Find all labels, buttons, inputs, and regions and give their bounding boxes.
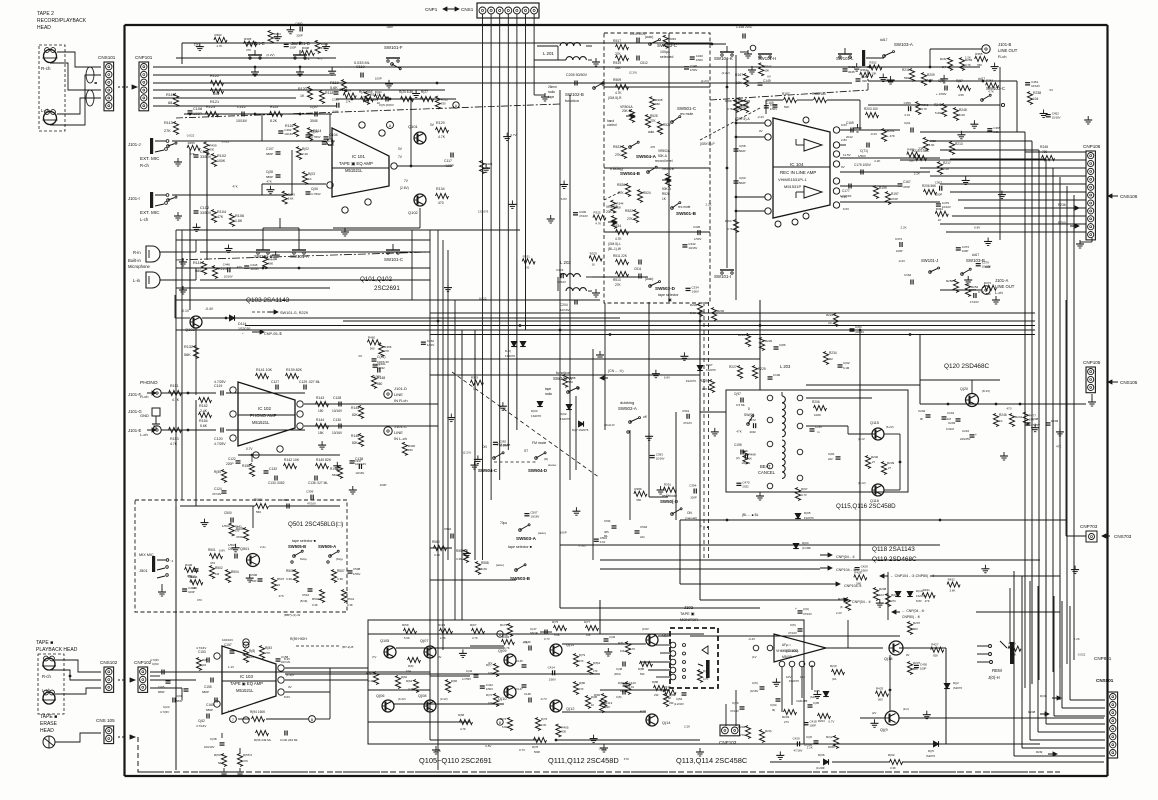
resistor R503 560 — [254, 498, 269, 514]
svg-text:R527: R527 — [663, 123, 671, 127]
svg-text:C508: C508 — [353, 567, 361, 571]
diode D114 1S2076 — [230, 315, 251, 331]
diode D115 bottom — [926, 741, 939, 758]
resistor R355 — [975, 52, 988, 67]
resistor R314 — [343, 89, 356, 104]
resistor R436 — [185, 563, 198, 578]
svg-text:SW102-B: SW102-B — [565, 92, 584, 97]
svg-text:1/50V: 1/50V — [770, 107, 777, 111]
svg-text:R225: R225 — [758, 367, 766, 371]
svg-text:←: ← — [800, 566, 804, 571]
svg-text:CNP101: CNP101 — [135, 55, 153, 60]
diode D101 1S2076 pair — [505, 342, 526, 359]
svg-text:2.2K: 2.2K — [901, 226, 907, 230]
node circled B3 — [497, 719, 503, 725]
wire x888 down — [887, 572, 889, 620]
switch SW103-C — [981, 86, 1005, 101]
svg-text:5.6K: 5.6K — [502, 725, 508, 729]
svg-text:R239: R239 — [887, 461, 895, 465]
svg-text:D((? 1S2076: D((? 1S2076 — [572, 428, 589, 432]
svg-text:R(80: R(80 — [579, 681, 586, 685]
svg-text:R(83: R(83 — [265, 646, 272, 650]
dash-dot path left — [176, 104, 560, 118]
cap C194 01 — [770, 699, 781, 712]
resistor R238 104 — [1027, 91, 1041, 105]
label value — [974, 226, 980, 230]
svg-text:R509: R509 — [1009, 642, 1017, 646]
label value — [519, 748, 525, 752]
svg-text:10/16V: 10/16V — [557, 280, 566, 284]
wire sw102a drop — [575, 396, 577, 470]
svg-text:27K: 27K — [246, 48, 251, 52]
svg-text:R308: R308 — [302, 46, 310, 50]
svg-text:C500: C500 — [224, 511, 232, 515]
resistor R240 27 — [865, 455, 878, 469]
wires IC104 outputs right — [840, 145, 940, 202]
svg-text:47K: 47K — [523, 640, 528, 644]
svg-text:4.7/25V: 4.7/25V — [214, 380, 226, 384]
resistor R427 — [931, 643, 944, 658]
svg-text:R513: R513 — [613, 278, 621, 282]
wires SW101AB verticals — [263, 218, 299, 244]
svg-text:tape: tape — [545, 387, 551, 391]
svg-text:C177: C177 — [842, 189, 850, 193]
svg-text:3.3K: 3.3K — [337, 577, 343, 581]
svg-text:HEAD: HEAD — [40, 728, 54, 734]
resistor R230 5.6K — [711, 308, 724, 321]
svg-text:C112: C112 — [237, 105, 246, 109]
switch SW503-A — [500, 521, 546, 541]
svg-text:R(94 160K: R(94 160K — [250, 710, 266, 714]
svg-text:SW505-B: SW505-B — [288, 544, 306, 549]
resistor R388 — [563, 374, 576, 387]
svg-text:R234: R234 — [829, 351, 837, 355]
resistor R468 — [743, 451, 756, 464]
wire IC105 out right — [826, 647, 872, 649]
svg-text:Q111,Q112 2SC458D: Q111,Q112 2SC458D — [548, 756, 619, 765]
resistor R188 4.7K — [725, 99, 739, 113]
resistor R202b 270 — [738, 725, 751, 739]
svg-text:TAPE ■: TAPE ■ — [36, 640, 53, 646]
resistor R189 330 — [663, 693, 675, 707]
cap C162b 4.7/16V — [196, 714, 209, 729]
resistor R121 1504 — [359, 90, 374, 102]
transistor Q101 — [408, 123, 435, 144]
transistor Q118 — [884, 641, 910, 661]
svg-text:(CN ← ⑤): (CN ← ⑤) — [608, 369, 623, 373]
svg-text:0V: 0V — [438, 655, 442, 659]
label value — [1078, 653, 1086, 657]
wire y497 stub — [649, 496, 668, 498]
resistor R246 1K — [993, 413, 1006, 427]
cap C110 0.033ML — [354, 61, 370, 78]
label TAPE 1 ERASE HEAD — [40, 714, 58, 734]
svg-text:4.7/(6V: 4.7/(6V — [160, 710, 169, 714]
svg-text:C(86: C(86 — [779, 343, 786, 347]
microphone R-in — [133, 246, 160, 262]
resistor R160 3.3K — [366, 671, 379, 685]
wires right col to CNS801 — [1009, 588, 1011, 644]
capacitor C420 — [793, 736, 803, 752]
resistor R534 4.7K — [613, 224, 629, 241]
svg-text:R113: R113 — [164, 121, 173, 125]
transistor Q115 — [858, 421, 894, 441]
svg-text:R391: R391 — [664, 483, 672, 487]
svg-text:3.3K: 3.3K — [541, 723, 547, 727]
svg-text:470P: 470P — [891, 197, 898, 201]
switch SW104 — [744, 407, 754, 425]
wire y690 bottom mid — [600, 689, 670, 691]
svg-text:2.2K: 2.2K — [684, 725, 690, 729]
svg-text:680P: 680P — [176, 699, 183, 703]
svg-text:2.2K: 2.2K — [914, 172, 920, 176]
op-amp IC102 PHONO AMP — [238, 382, 295, 446]
svg-text:C506: C506 — [250, 573, 258, 577]
svg-text:47/16V: 47/16V — [970, 300, 979, 304]
ground — [412, 90, 420, 98]
connector CNS801 — [1108, 692, 1118, 758]
resistor R374 — [983, 281, 996, 296]
svg-text:4.7/16V: 4.7/16V — [196, 724, 206, 728]
wires CNP102 out — [150, 672, 430, 700]
label value — [789, 679, 800, 683]
svg-text:1S2076: 1S2076 — [531, 414, 541, 418]
svg-text:4.7K: 4.7K — [438, 135, 446, 139]
resistor R111 680 — [193, 261, 207, 275]
svg-text:(8.1V): (8.1V) — [982, 389, 990, 393]
capacitor C356 — [904, 101, 912, 117]
svg-text:562P: 562P — [739, 149, 746, 153]
ground — [474, 455, 482, 463]
svg-text:CNP103: CNP103 — [719, 740, 737, 745]
capacitor C451 — [1025, 80, 1040, 88]
svg-text:Q(07: Q(07 — [420, 639, 428, 643]
resistor R129 4.7K — [436, 121, 449, 139]
svg-text:D-0(: D-0( — [505, 349, 511, 353]
svg-text:R156: R156 — [242, 464, 250, 468]
capacitor C377 — [969, 288, 979, 304]
svg-text:R129: R129 — [436, 121, 445, 125]
svg-text:HEAD: HEAD — [37, 25, 51, 31]
label value — [187, 134, 195, 138]
wire mixing bus y168 — [604, 167, 710, 169]
ground bottom 3 — [696, 748, 704, 756]
resistor R173 5.6K — [500, 623, 513, 637]
svg-text:ERASE: ERASE — [40, 721, 58, 727]
svg-text:0h: 0h — [920, 417, 924, 421]
variable resistor VR501A 20K-B — [620, 105, 635, 123]
arrow CNP104-6 CNP801-6 — [892, 609, 924, 619]
svg-text:R509: R509 — [613, 78, 621, 82]
wires into CNP106 — [900, 160, 1083, 232]
svg-text:3.3K: 3.3K — [347, 603, 353, 607]
resistor R207 560 — [956, 79, 971, 97]
resistor R119 5.6K — [330, 80, 347, 93]
svg-text:SW101-H: SW101-H — [758, 56, 776, 61]
svg-text:1/50V: 1/50V — [692, 289, 699, 293]
resistor R176 cl — [535, 717, 547, 731]
resistor R117 4.7K — [364, 92, 378, 105]
svg-text:1/50V: 1/50V — [858, 154, 866, 158]
cap C201 cluster — [942, 411, 955, 421]
svg-text:R508: R508 — [286, 569, 294, 573]
svg-text:L-ch: L-ch — [42, 688, 51, 693]
resistor R125 8.2K — [270, 105, 283, 123]
svg-text:tape: tape — [548, 95, 554, 99]
resistor R171 10K — [486, 663, 499, 677]
label 0.2V — [870, 132, 877, 136]
resistor R155 27K — [214, 470, 227, 483]
wire y560 center right — [600, 559, 1040, 561]
label value — [629, 71, 637, 75]
svg-text:R224: R224 — [826, 313, 834, 317]
cap C102 33/50V — [194, 206, 212, 215]
label value — [237, 265, 242, 269]
wires CNP1 drop lower — [483, 300, 509, 560]
transistor Q111 — [544, 637, 574, 656]
svg-text:47/16V: 47/16V — [794, 748, 803, 752]
switch SW101-E — [246, 41, 265, 76]
resistor R222 cluster — [738, 333, 773, 351]
jack J101-A LINE OUT L-ch — [982, 278, 1015, 295]
svg-text:560: 560 — [986, 292, 991, 296]
svg-text:0V: 0V — [359, 354, 363, 358]
resistor R428 — [854, 570, 867, 585]
cap C177 100P — [840, 184, 852, 199]
capacitor C463 — [373, 363, 381, 379]
svg-text:C510 2012: C510 2012 — [630, 32, 646, 36]
wire right col down — [999, 67, 1001, 240]
wire mix top to SW101K — [666, 43, 726, 46]
svg-text:SW101-J: SW101-J — [921, 258, 938, 263]
label value — [222, 140, 230, 144]
cap C145 cluster2 — [516, 659, 527, 691]
svg-text:SW504-A: SW504-A — [636, 154, 657, 159]
svg-text:100P: 100P — [810, 724, 817, 728]
svg-text:R(7): R(7) — [486, 663, 492, 667]
label hand control — [607, 119, 617, 127]
wires bus top bends — [920, 132, 1053, 168]
dashed diag switch link — [452, 372, 600, 478]
svg-text:10K: 10K — [1029, 418, 1034, 422]
diode D103 — [531, 402, 589, 433]
svg-text:C107: C107 — [266, 147, 274, 151]
arrow CNS103 out — [118, 735, 135, 739]
label TAPE 2 RECORD/PLAYBACK HEAD — [37, 11, 87, 31]
label value — [650, 145, 655, 149]
label value — [828, 720, 834, 724]
transistor Q102 — [408, 194, 426, 215]
svg-text:R524: R524 — [643, 191, 651, 195]
capacitor C323 — [556, 268, 566, 284]
capacitor C399 — [306, 490, 316, 506]
cap C502b — [282, 498, 290, 509]
svg-text:control: control — [607, 123, 617, 127]
ground — [503, 133, 511, 141]
svg-text:R2(0: R2(0 — [830, 664, 837, 668]
svg-text:R26(: R26( — [1036, 750, 1043, 754]
cap C195b — [808, 701, 820, 707]
cap C165 680P — [158, 681, 171, 694]
svg-text:47/16V: 47/16V — [579, 214, 588, 218]
svg-text:C397: C397 — [354, 459, 362, 463]
svg-text:(0.20Φ: (0.20Φ — [802, 546, 811, 550]
svg-text:J101-C: J101-C — [394, 424, 407, 429]
resistor R203 row — [864, 107, 879, 118]
inductor L201 — [543, 43, 600, 66]
svg-text:47/16V: 47/16V — [803, 612, 812, 616]
wire left edge inner — [181, 230, 183, 500]
resistor R339 — [663, 35, 676, 48]
svg-text:-0.4V: -0.4V — [205, 307, 214, 311]
label value — [219, 549, 225, 553]
svg-text:Q101: Q101 — [408, 124, 419, 129]
ground — [272, 251, 280, 259]
svg-text:Φ(: Φ( — [772, 708, 775, 712]
cap C119 4.7/25V — [214, 380, 226, 396]
svg-text:0.7V: 0.7V — [510, 133, 516, 137]
svg-text:SW101-C: SW101-C — [384, 257, 403, 262]
svg-text:1K: 1K — [592, 262, 596, 266]
svg-text:47K: 47K — [1056, 445, 1061, 449]
resistor R502 1M — [209, 566, 222, 579]
svg-text:R118: R118 — [325, 91, 333, 95]
resistor R183 27K — [259, 646, 272, 659]
label Q101 Q102 2SC2691 — [360, 276, 400, 292]
schematic border frame — [125, 25, 1108, 776]
ground — [923, 711, 931, 719]
transistor Q119 — [872, 707, 909, 732]
cap C167 470P — [898, 180, 911, 189]
svg-text:C472: C472 — [749, 418, 757, 422]
cap C148 2047 — [736, 25, 753, 39]
svg-text:10/16V: 10/16V — [1052, 116, 1061, 120]
svg-text:-0.2V: -0.2V — [870, 132, 877, 136]
ground CNP1 pin7 — [534, 93, 549, 101]
svg-text:C201: C201 — [947, 411, 955, 415]
dashed label SW101-G R229 — [252, 310, 308, 315]
svg-text:R154: R154 — [199, 419, 208, 423]
svg-text:3.3K: 3.3K — [312, 603, 318, 607]
svg-text:222: 222 — [640, 535, 645, 539]
svg-text:AFμ □: AFμ □ — [782, 643, 791, 647]
svg-text:R354: R354 — [986, 78, 994, 82]
label value — [624, 757, 629, 761]
svg-text:R504: R504 — [231, 570, 239, 574]
label R260 arrow — [1058, 221, 1079, 228]
resistor R447 — [263, 256, 276, 269]
svg-text:47/16V: 47/16V — [683, 421, 692, 425]
wire y300 long — [176, 299, 600, 301]
label PHONO — [140, 380, 158, 386]
cap C197 0.5ML — [734, 392, 746, 407]
resistor R115 68 — [166, 93, 179, 107]
wire y385 right — [806, 384, 920, 386]
svg-text:100P: 100P — [690, 496, 697, 500]
svg-text:Q105: Q105 — [380, 639, 389, 643]
svg-text:R507: R507 — [277, 577, 285, 581]
wire top row y58 — [176, 57, 336, 59]
svg-text:(D): (D) — [544, 457, 548, 461]
label tape selector sw505 — [288, 539, 336, 549]
svg-text:R455: R455 — [188, 141, 196, 145]
arrow CNS102-CNP102 — [118, 678, 135, 682]
svg-text:R132: R132 — [184, 345, 193, 349]
svg-text:4.7K: 4.7K — [727, 107, 733, 111]
svg-text:IC 104: IC 104 — [790, 162, 804, 167]
label value — [736, 430, 741, 434]
svg-text:CNS106: CNS106 — [1120, 194, 1138, 199]
svg-text:560: 560 — [904, 76, 909, 80]
resistor R477 — [1023, 412, 1036, 425]
svg-text:dubbing: dubbing — [620, 400, 634, 405]
svg-text:220P: 220P — [226, 462, 233, 466]
bus wire x443 vertical — [442, 240, 444, 650]
svg-text:560: 560 — [256, 510, 261, 514]
svg-text:82K: 82K — [702, 387, 707, 391]
svg-text:D(07: D(07 — [706, 363, 713, 367]
op-amp IC101 TAPE EQ AMP — [332, 128, 389, 197]
svg-text:R(53.6: R(53.6 — [214, 753, 223, 757]
cap C104 100P — [324, 133, 338, 139]
svg-text:R403: R403 — [502, 635, 510, 639]
bus wires CNP1 vertical drop — [483, 25, 535, 330]
ground — [604, 648, 612, 656]
switch SW501-D rec mode — [660, 494, 697, 520]
svg-text:(BL-1)-W: (BL-1)-W — [608, 247, 621, 251]
svg-text:33K: 33K — [615, 66, 622, 70]
wire IC103 bottom loop — [222, 668, 330, 754]
resistor R495 — [282, 191, 295, 204]
svg-text:0.033 ML: 0.033 ML — [354, 61, 370, 65]
svg-text:REC IN LINE AMP: REC IN LINE AMP — [780, 170, 816, 175]
svg-text:C50(: C50( — [604, 519, 611, 523]
resistor R433 — [876, 687, 889, 702]
svg-text:R220: R220 — [765, 339, 773, 343]
cap C508 1/50V — [348, 567, 361, 576]
svg-text:100K: 100K — [217, 159, 226, 163]
label VHR-085 — [796, 699, 808, 703]
cap C184 100/16V — [850, 325, 865, 334]
svg-text:470: 470 — [650, 145, 655, 149]
wire amp rail y704 — [394, 703, 504, 705]
resistor R143 150 — [316, 396, 329, 413]
label value — [435, 749, 441, 753]
cap C511 2032 — [634, 260, 642, 272]
tape2 head dashed box — [39, 45, 65, 131]
svg-text:C(06: C(06 — [311, 187, 318, 191]
svg-text:8.6V: 8.6V — [284, 695, 290, 699]
label R26 arrow — [1036, 750, 1057, 756]
svg-text:1M: 1M — [215, 572, 220, 576]
svg-text:27K: 27K — [627, 217, 634, 221]
wire y268 row — [176, 267, 430, 270]
mixing section dashed box — [604, 33, 710, 303]
svg-text:C(61: C(61 — [904, 121, 911, 125]
wire y280 row — [200, 279, 430, 281]
svg-text:100P: 100P — [962, 249, 969, 253]
label value — [359, 354, 363, 358]
svg-text:R146: R146 — [351, 434, 359, 438]
ground — [1040, 110, 1048, 118]
svg-text:(2.2V): (2.2V) — [629, 71, 637, 75]
resistor R441 — [229, 523, 242, 536]
wires phono feeds — [161, 392, 305, 432]
svg-text:Q115,Q116 2SC458D: Q115,Q116 2SC458D — [836, 503, 896, 510]
svg-text:10k: 10k — [800, 675, 805, 679]
svg-text:PLAYBACK HEAD: PLAYBACK HEAD — [36, 647, 78, 653]
svg-text:C128: C128 — [333, 396, 341, 400]
